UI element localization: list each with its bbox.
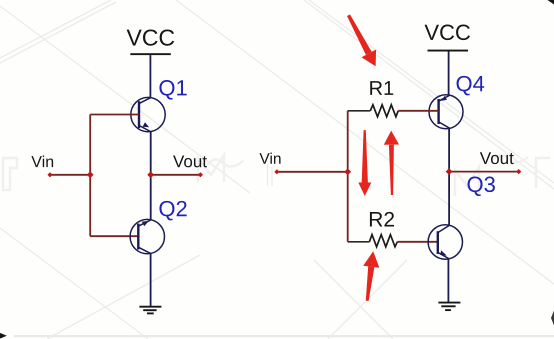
- wire Q4 emitter to Q3 collector (output node right): [448, 128, 450, 225]
- ground (right): [438, 303, 460, 311]
- label R2: [370, 212, 394, 227]
- transistor Q3 (NPN): [428, 225, 462, 259]
- node junction input (right): [344, 168, 351, 175]
- label Vin (right): [259, 153, 280, 164]
- VCC rail bar (left): [130, 53, 171, 55]
- annotation arrow pointing at R1: [347, 14, 376, 66]
- transistor Q4 (PNP): [429, 95, 463, 129]
- wire VCC to Q4: [448, 52, 450, 96]
- resistor R2: [348, 235, 438, 247]
- wire VCC to Q1 collector: [149, 55, 151, 97]
- label Vin (left): [31, 156, 53, 168]
- node junction input/base (left): [87, 171, 94, 178]
- node dot Vin terminal (right): [274, 169, 279, 174]
- node dot Vin terminal (left): [47, 172, 52, 177]
- VCC rail bar (right): [428, 50, 469, 52]
- wire Vin stub (left): [50, 174, 90, 176]
- label Vout (right): [480, 152, 514, 164]
- label Q1: [159, 80, 186, 100]
- wire to Q1 base: [90, 114, 139, 116]
- label Q3: [468, 177, 495, 197]
- wire Vin stub (right): [277, 171, 348, 173]
- wire Q1 emitter to Q2 emitter (output node): [150, 132, 152, 220]
- power label VCC (right): [425, 25, 471, 41]
- label Q2: [159, 201, 186, 221]
- annotation arrow current up (right of pair): [384, 131, 399, 195]
- wire input vertical (right): [347, 111, 349, 242]
- resistor R1: [348, 105, 439, 117]
- transistor Q2 (PNP): [130, 219, 164, 253]
- wire Vout stub (right): [449, 171, 519, 173]
- wire Q2 collector to ground: [150, 254, 152, 307]
- label Q4: [457, 76, 485, 96]
- node junction output (right): [446, 168, 453, 175]
- ground (left): [139, 307, 161, 314]
- label Vout (left): [173, 156, 207, 168]
- node dot Vout terminal (left): [198, 172, 203, 177]
- node junction output (left): [147, 171, 154, 178]
- annotation arrow pointing at R2 from below: [363, 251, 379, 301]
- annotation arrow current down (left of pair): [358, 130, 371, 196]
- power label VCC (left): [127, 29, 175, 45]
- wire Vout stub (left): [151, 174, 201, 176]
- node dot Vout terminal (right): [516, 169, 521, 174]
- wire Q3 emitter to ground: [447, 259, 449, 303]
- wire to Q2 base: [90, 235, 138, 237]
- wire input vertical (left): [89, 115, 91, 237]
- label R1: [370, 81, 393, 95]
- transistor Q1 (NPN): [131, 97, 165, 132]
